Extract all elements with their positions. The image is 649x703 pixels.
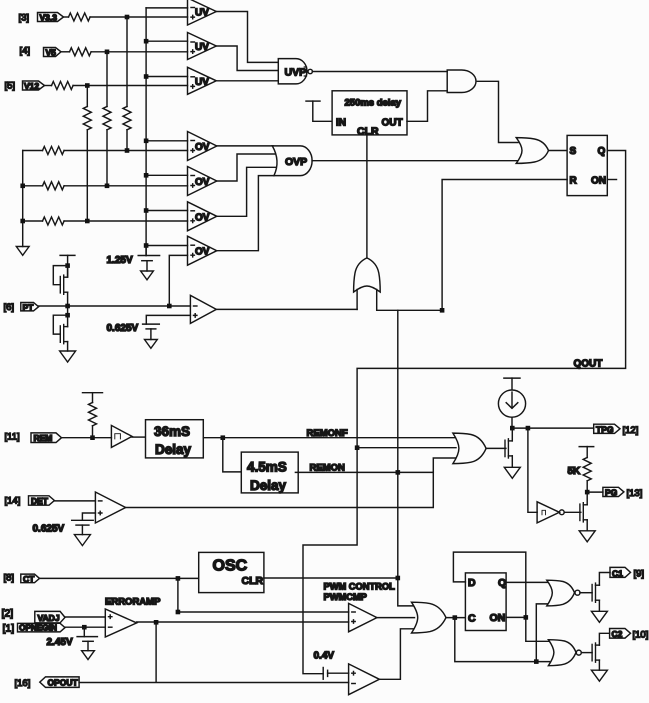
wire OV1 minus input [146, 140, 187, 142]
ground PT stack [60, 351, 76, 362]
node rail rowB [20, 184, 25, 189]
wire delay OUT to AND [407, 91, 447, 122]
resistor R_V3.3 bottom arm [123, 107, 131, 130]
or-gate OR3 (PWM) [412, 602, 447, 633]
wire ON stub [607, 179, 616, 181]
node rail rowC [20, 219, 25, 224]
svg-text:[11]: [11] [5, 432, 20, 443]
or-gate OR1 before S [516, 138, 548, 164]
svg-text:QOUT: QOUT [574, 359, 603, 370]
pin label [6] [4, 302, 15, 313]
pin V3.3 [38, 13, 64, 23]
battery 1.25V [107, 246, 160, 272]
ground M_C2 [591, 670, 607, 681]
svg-text:OSC: OSC [213, 558, 248, 575]
wire UV1 output to NAND [216, 12, 277, 63]
node V5 divider tap [105, 50, 110, 55]
svg-text:UVP: UVP [285, 66, 307, 78]
or-gate OVP [272, 146, 312, 176]
svg-text:C: C [468, 612, 476, 624]
comparator UV1 [188, 0, 217, 25]
wire row B left [23, 185, 43, 187]
node bus OV4 [144, 243, 149, 248]
wire row C left [23, 220, 43, 222]
svg-text:36mS: 36mS [154, 424, 190, 439]
wire row A left [23, 150, 43, 152]
wire OV3 minus input [146, 210, 187, 212]
wire OV4 output to OVP [217, 176, 274, 251]
battery 2.45V [47, 637, 98, 651]
svg-text:OPOUT: OPOUT [48, 678, 79, 688]
block 250ms delay [332, 91, 407, 138]
wire C net to NOR2 [455, 618, 550, 662]
transistor M_TPG [505, 428, 512, 467]
svg-text:CT: CT [23, 574, 35, 584]
block 4.5mS delay [241, 452, 298, 493]
node REM pullup [90, 435, 95, 440]
buffer REM schmitt [111, 425, 132, 447]
svg-text:0.4V: 0.4V [314, 651, 335, 662]
node bus OV3 [144, 208, 149, 213]
svg-text:[1]: [1] [3, 623, 15, 635]
wire OV2 output to OVP [217, 154, 281, 181]
wire DET to comparator [54, 500, 95, 502]
wire row C to OV3+ [64, 220, 187, 222]
wire tap to battery [83, 627, 85, 636]
resistor R rowA [43, 147, 65, 155]
svg-text:ERRORAMP: ERRORAMP [105, 597, 161, 608]
inverter PG [537, 502, 564, 523]
transistor M_C1 [592, 573, 610, 612]
label REMON [310, 463, 346, 474]
wire DET output [126, 472, 434, 507]
node row A tap [125, 148, 130, 153]
node TPG PG branch [526, 426, 531, 431]
svg-text:1.25V: 1.25V [107, 255, 133, 266]
svg-text:UV: UV [195, 8, 209, 19]
wire V3.3 to resistor [64, 16, 69, 18]
wire AND output to OR1 [477, 81, 518, 142]
svg-text:R: R [570, 175, 578, 186]
svg-text:Delay: Delay [250, 478, 287, 493]
resistor R rowB [43, 182, 65, 190]
wire UV3 output to NAND [216, 80, 277, 82]
wire PWMCMP output to OR3 [377, 617, 415, 619]
ground M_PG [579, 531, 595, 542]
ground M_TPG [504, 467, 520, 478]
label PWM CONTROL [324, 582, 396, 592]
resistor R_V12 bottom arm [83, 107, 91, 130]
resistor REM pullup [89, 403, 97, 426]
wire erroramp output to PWM plus [137, 621, 349, 623]
wire center OR right input [377, 290, 442, 311]
wire OV3 output to OVP [217, 167, 281, 216]
svg-text:PWMCMP: PWMCMP [324, 592, 367, 602]
svg-text:VADJ: VADJ [38, 613, 60, 623]
wire OVP output to OR1 [312, 160, 517, 162]
wire OPNEGIN to minus [65, 626, 105, 628]
svg-text:PG: PG [605, 488, 618, 498]
svg-text:REMON: REMON [310, 463, 346, 474]
wire VADJ to plus [65, 616, 105, 618]
resistor R rowC [43, 217, 65, 225]
block 36mS delay [146, 420, 204, 458]
pin label [8] [4, 573, 15, 584]
svg-text:TPG: TPG [596, 424, 614, 434]
svg-text:Q: Q [498, 577, 506, 589]
svg-text:[4]: [4] [20, 46, 31, 57]
svg-text:V5: V5 [46, 48, 57, 58]
svg-text:Delay: Delay [155, 442, 192, 457]
svg-text:[16]: [16] [15, 678, 31, 689]
wire 5K to PG node [586, 481, 588, 492]
current source I1 [498, 390, 525, 417]
node bus OV2 [144, 173, 149, 178]
svg-text:CLR: CLR [242, 575, 264, 587]
wire stub to Q1 drain [67, 255, 69, 276]
pin label [16] [15, 678, 31, 689]
ground 0.625V DET [74, 535, 90, 546]
node V3.3 divider tap [125, 15, 130, 20]
node bus UV2 [144, 39, 149, 44]
wire center OR left input from PT [356, 290, 358, 310]
or-gate center (points up) [354, 258, 381, 292]
svg-text:[5]: [5] [5, 81, 16, 92]
wire R-net vertical to PWM area [398, 310, 413, 606]
wire buffer to 36mS box [132, 436, 146, 438]
resistor R_V5 bottom arm [103, 107, 111, 130]
wire UV1 minus input [146, 7, 187, 9]
wire V12 divider vertical [86, 86, 88, 107]
wire inverter to PG fet gate [564, 511, 581, 513]
wire 0.4V comp output to OR3 [379, 629, 414, 680]
transistor Q1 (diode connected) [53, 266, 67, 306]
wire PT comparator output [216, 308, 357, 310]
node erroramp branch [154, 620, 159, 625]
wire row A to OV1+ [64, 150, 187, 152]
svg-text:UV: UV [195, 42, 209, 53]
node V12 divider tap [85, 83, 90, 88]
label QOUT [574, 359, 603, 370]
wire current source to TPG node [511, 418, 513, 429]
supply stub 5K [579, 446, 594, 448]
wire NOR1 to C1 fet [580, 592, 592, 594]
resistor R_V12 top [52, 82, 74, 90]
pin DET [29, 496, 55, 506]
op-amp ERRORAMP [105, 609, 136, 637]
node 2.45V tap [82, 625, 87, 630]
wire OR3 output to C input [446, 617, 465, 619]
flip-flop D [465, 573, 506, 631]
wire OV4 plus from PT node [169, 255, 187, 306]
resistor R_V5 top [70, 48, 92, 56]
node PT line OV4 tap [167, 304, 172, 309]
comparator OV3 [188, 202, 217, 231]
ground 2.45V [82, 651, 95, 660]
pin label [1] [3, 623, 15, 635]
wire OR1 output to S [549, 150, 568, 152]
node Q2 gate-drain [65, 313, 70, 318]
node PG [585, 490, 590, 495]
svg-text:OUT: OUT [382, 118, 403, 129]
svg-text:[6]: [6] [4, 302, 15, 313]
wire REMON [295, 458, 455, 472]
transistor Q2 (diode connected) [53, 306, 67, 351]
wire stub to current source [511, 378, 513, 390]
svg-text:4.5mS: 4.5mS [247, 460, 287, 475]
pin label [11] [5, 432, 20, 443]
node bus OV1 [144, 139, 149, 144]
pin TPG [594, 424, 620, 434]
wire V5 node [91, 51, 187, 53]
wire OV1 output to OVP [217, 145, 273, 147]
pin CT [21, 574, 40, 584]
svg-text:PT: PT [23, 303, 35, 313]
svg-text:S: S [570, 146, 577, 157]
node C to NOR1 branch [534, 659, 539, 664]
svg-text:[13]: [13] [627, 488, 643, 499]
wire V5 divider vertical [106, 52, 108, 107]
svg-text:UV: UV [195, 77, 209, 88]
svg-text:C2: C2 [612, 629, 623, 639]
wire QOUT branch to OR2 [357, 447, 456, 449]
svg-text:V3.3: V3.3 [40, 13, 58, 23]
pin label [2] [2, 608, 14, 620]
svg-text:OV: OV [195, 247, 210, 258]
wire pullup to REM line [92, 426, 94, 438]
node Q1 gate-drain [65, 263, 70, 268]
label REMONF [307, 428, 348, 439]
label 0.4V [314, 651, 335, 662]
pin C2 [610, 629, 631, 640]
svg-text:REM: REM [34, 433, 53, 443]
svg-text:[10]: [10] [633, 630, 649, 641]
node ON feedback [524, 615, 529, 620]
pin REM [31, 433, 62, 443]
wire V5 to resistor [61, 51, 70, 53]
pin label [14] [5, 496, 21, 507]
pin PT [21, 303, 39, 313]
svg-text:[2]: [2] [2, 608, 14, 620]
battery 0.625V DET [33, 520, 94, 534]
wire branch up to NOR1 input [536, 604, 548, 662]
node row B tap [105, 184, 110, 189]
node bus UV3 [144, 74, 149, 79]
wire row B to OV2+ [64, 185, 187, 187]
wire R input [442, 180, 567, 311]
svg-text:[14]: [14] [5, 496, 21, 507]
pin OPNEGIN [18, 623, 66, 632]
wire left rail [22, 151, 24, 247]
and-gate U_AND [447, 70, 476, 93]
wire stub to 5K [586, 447, 588, 458]
pin VADJ [35, 611, 65, 622]
nor-gate NOR1 [547, 580, 580, 606]
node REMONF branch [221, 435, 226, 440]
svg-text:OV: OV [195, 212, 210, 223]
wire center OR output to CLR [366, 135, 368, 258]
battery 0.4V [323, 668, 348, 680]
supply stub PT stack [60, 254, 75, 256]
svg-text:[12]: [12] [623, 425, 639, 436]
wire PT line [39, 305, 191, 307]
comparator PWMCMP [349, 603, 377, 631]
wire PG node to pin [587, 491, 603, 493]
svg-text:V12: V12 [24, 81, 39, 91]
ground 0.625V PT [145, 340, 158, 349]
node TPG drain [510, 426, 515, 431]
comparator UV2 [188, 33, 217, 60]
wire ON output [506, 616, 526, 618]
wire V12 to resistor [45, 85, 52, 87]
wire stub to delay IN [313, 101, 332, 121]
node QOUT branch [355, 445, 360, 450]
wire REMONF [204, 437, 455, 439]
svg-text:[8]: [8] [4, 573, 15, 584]
wire NOR2 to C2 fet [581, 652, 592, 654]
node C input [453, 615, 458, 620]
label ERRORAMP [105, 597, 161, 608]
pin V12 [23, 81, 45, 91]
wire V3.3 divider to row A [126, 130, 128, 151]
wire OV4 minus input [146, 245, 187, 247]
svg-text:ON: ON [591, 175, 606, 186]
ground 1.25V [141, 271, 154, 280]
wire CT to OSC [40, 577, 199, 579]
resistor 5K [568, 458, 592, 481]
wire V12 divider to row C [86, 130, 88, 221]
svg-text:[3]: [3] [19, 13, 30, 24]
svg-text:2.45V: 2.45V [47, 637, 73, 648]
node CT PWM tap [176, 610, 181, 615]
pin V5 [44, 48, 62, 58]
pin C1 [610, 567, 631, 578]
svg-text:D: D [468, 577, 476, 589]
latch SR [567, 135, 607, 195]
nor-gate NOR2 [548, 640, 581, 666]
pin label [4] [20, 46, 31, 57]
pin label [3] [19, 13, 30, 24]
comparator DET [95, 492, 125, 523]
wire PG branch down to inverter [528, 428, 537, 512]
node CT branch [176, 576, 181, 581]
node PT line Q1 [65, 304, 70, 309]
wire UV2 minus input [146, 40, 187, 42]
svg-text:5K: 5K [568, 466, 582, 477]
svg-text:C1: C1 [612, 568, 623, 578]
wire branch to 4.5mS box [223, 438, 243, 472]
svg-text:PWM CONTROL: PWM CONTROL [324, 582, 396, 592]
label PWMCMP [324, 592, 367, 602]
supply stub current source [504, 377, 520, 379]
ground M_C1 [591, 611, 607, 622]
svg-text:OVP: OVP [285, 156, 307, 168]
wire stub to pullup resistor [92, 393, 94, 403]
svg-text:OV: OV [195, 177, 210, 188]
nand-gate UVP [278, 59, 312, 84]
svg-text:0.625V: 0.625V [107, 323, 139, 334]
battery 0.625V PT [107, 323, 160, 340]
svg-text:OPNEGIN: OPNEGIN [19, 624, 57, 633]
pin label [10] [633, 630, 649, 641]
wire branch to OPOUT and 0.4V comp [79, 622, 349, 682]
svg-text:OV: OV [195, 142, 210, 153]
wire Q output to NOR1 [506, 581, 548, 583]
ground left rail [16, 247, 29, 256]
wire REM to buffer [62, 437, 112, 439]
pin label [5] [5, 81, 16, 92]
wire 0.625V to PT plus [146, 315, 190, 324]
wire OV2 minus input [146, 174, 187, 176]
wire Q output QOUT [303, 151, 626, 674]
svg-text:REMONF: REMONF [307, 428, 348, 439]
wire TPG line to pin [512, 427, 593, 429]
pin label [9] [634, 569, 645, 580]
wire OR2 output to TPG fet gate [486, 447, 506, 449]
node R-net REMON [396, 470, 401, 475]
wire UV2 output to NAND [216, 46, 277, 71]
comparator OV2 [188, 167, 217, 196]
node row C tap [85, 219, 90, 224]
node R-net OSC CLR [396, 576, 401, 581]
wire UV3 minus input [146, 76, 187, 78]
supply stub REM pullup [83, 392, 103, 394]
transistor M_C2 [592, 633, 610, 670]
comparator 0.4V detect [349, 664, 380, 695]
svg-text:Q: Q [598, 146, 606, 157]
or-gate OR2 (TPG) [453, 433, 486, 464]
transistor M_PG [580, 492, 587, 531]
comparator OV1 [188, 132, 217, 161]
pin OPOUT [40, 677, 79, 688]
svg-text:IN: IN [336, 118, 346, 129]
wire V5 divider to row B [106, 130, 108, 186]
pin label [12] [623, 425, 639, 436]
wire D feedback loop [453, 552, 548, 641]
comparator PT [190, 295, 216, 323]
svg-text:CLR: CLR [357, 125, 379, 137]
comparator OV4 [188, 236, 217, 265]
svg-text:250ms delay: 250ms delay [345, 98, 402, 109]
svg-text:0.625V: 0.625V [33, 524, 65, 535]
wire OSC CLR to R-net [264, 577, 398, 579]
wire 1.25V reference bus [145, 8, 147, 256]
comparator UV3 [188, 67, 217, 94]
node R-net corner [440, 308, 445, 313]
svg-text:ON: ON [490, 612, 506, 624]
wire UVP output to AND [312, 71, 447, 73]
wire V3.3 divider vertical [126, 17, 128, 107]
wire V3.3 node [90, 16, 187, 18]
wire CT branch to PWM minus [178, 578, 349, 612]
block OSC [199, 552, 264, 592]
svg-text:[9]: [9] [634, 569, 645, 580]
wire 0.625V to DET plus [82, 513, 95, 520]
resistor R_V3.3 top [69, 13, 91, 21]
svg-text:DET: DET [31, 496, 49, 506]
wire V12 node [73, 85, 187, 87]
pin PG [603, 487, 624, 497]
pin label [13] [627, 488, 643, 499]
supply stub delay IN [306, 100, 320, 102]
